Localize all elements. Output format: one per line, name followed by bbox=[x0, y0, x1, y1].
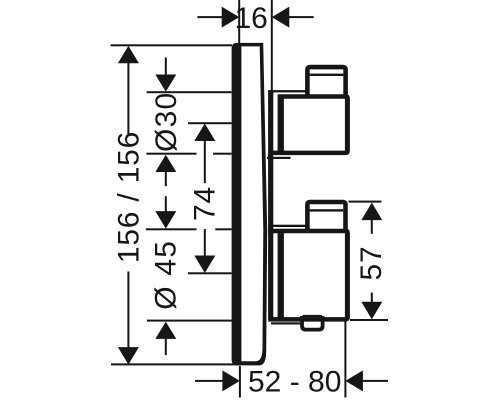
dim O45: top stub line bbox=[165, 196, 167, 211]
dim O45: bottom arrowhead bbox=[155, 322, 176, 339]
svg-text:Ø30: Ø30 bbox=[150, 92, 183, 152]
dim O45: top extension line right segment bbox=[215, 228, 231, 230]
dim 16: right arrowhead bbox=[272, 7, 290, 28]
dim 156/156: dimension line lower segment bbox=[127, 272, 129, 348]
dim 16: right extension line bbox=[271, 0, 273, 91]
upper sleeve bottom line bbox=[267, 157, 291, 159]
dim 52-80: right extension line bbox=[344, 321, 346, 398]
dim 74: dimension line upper segment bbox=[204, 140, 206, 183]
dim O45: bottom extension line bbox=[147, 320, 233, 322]
dim 57: bottom arrowhead bbox=[361, 302, 382, 320]
dim 57: dimension line lower segment bbox=[371, 293, 373, 303]
dim O45: bottom stub line bbox=[165, 338, 167, 355]
valve housing sleeve band behind plate bbox=[268, 91, 273, 320]
dim O30: top extension line bbox=[147, 91, 232, 93]
dim 156/156: bottom arrowhead bbox=[118, 347, 139, 365]
dim 156/156: top arrowhead bbox=[118, 46, 139, 64]
dim 16: left extension line bbox=[238, 0, 240, 43]
lower sleeve bottom line bbox=[271, 322, 300, 324]
wall plate (escutcheon, side profile) bbox=[232, 43, 268, 366]
safety-stop button under lower handle bbox=[302, 316, 323, 330]
dim 57: bottom extension line bbox=[350, 319, 388, 321]
dim O30: bottom arrowhead bbox=[155, 155, 176, 172]
dim 156/156: bottom extension line bbox=[111, 363, 241, 365]
upper sleeve top line bbox=[268, 90, 307, 92]
dim 74: top arrowhead bbox=[194, 124, 215, 142]
dim O30: bottom extension line left segment bbox=[147, 153, 197, 155]
dim O45: top extension line left segment bbox=[146, 228, 197, 230]
lower handle grip knob bbox=[307, 202, 345, 230]
dim 74: top extension line bbox=[188, 122, 232, 124]
svg-text:Ø 45: Ø 45 bbox=[150, 240, 183, 310]
dim 156/156: dimension line upper segment bbox=[127, 63, 129, 137]
dim O45: top arrowhead bbox=[155, 211, 176, 229]
dim 57: top arrowhead bbox=[361, 203, 382, 221]
dim 74: bottom arrowhead bbox=[194, 256, 215, 274]
lower sleeve top line bbox=[268, 225, 307, 227]
dim 52-80: right leader line bbox=[362, 380, 388, 382]
dim O30: top stub line bbox=[165, 58, 167, 76]
svg-text:74: 74 bbox=[189, 186, 222, 221]
dim 52-80: right arrowhead bbox=[345, 370, 363, 391]
svg-text:156 / 156: 156 / 156 bbox=[113, 131, 146, 263]
upper handle body (thermostat handle) bbox=[268, 94, 350, 155]
dim 52-80: left leader line bbox=[195, 380, 223, 382]
upper grip knob inner line bbox=[310, 74, 344, 76]
dim O30: bottom stub line bbox=[165, 171, 167, 186]
dim 156/156: top extension line bbox=[111, 44, 233, 46]
dim 16: left leader line bbox=[197, 16, 223, 18]
lower handle body (shut-off handle) bbox=[268, 229, 350, 322]
dim 74: dimension line lower segment bbox=[204, 229, 206, 257]
dim 52-80: left arrowhead bbox=[222, 370, 240, 391]
dim O30: top arrowhead bbox=[155, 75, 176, 92]
dim 16: left arrowhead bbox=[222, 7, 240, 28]
dim 57: top extension line bbox=[349, 201, 382, 203]
svg-text:52 - 80: 52 - 80 bbox=[248, 365, 341, 398]
dim 74: bottom extension line bbox=[188, 272, 232, 274]
svg-text:16: 16 bbox=[235, 2, 268, 35]
dim 16: right leader line bbox=[288, 16, 313, 18]
upper handle grip knob bbox=[307, 67, 345, 96]
svg-text:57: 57 bbox=[355, 246, 388, 281]
safety-stop button top ridge bbox=[303, 315, 323, 318]
dim 57: dimension line upper segment bbox=[371, 219, 373, 234]
dim 52-80: left extension line bbox=[239, 366, 241, 398]
lower grip knob inner line bbox=[310, 209, 344, 211]
dim O30: bottom extension line right segment bbox=[213, 153, 232, 155]
